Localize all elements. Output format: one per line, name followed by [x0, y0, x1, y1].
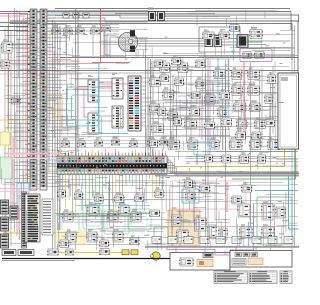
pump enclosure box 1	[170, 253, 230, 271]
wire trunk center v2	[147, 57, 149, 156]
wire X2 east 1	[222, 38, 238, 40]
wire X2 east 2	[222, 41, 238, 43]
wire trunk right v2	[207, 58, 209, 240]
green loom loop 2	[83, 205, 103, 229]
wire bundle strip-east 1	[48, 10, 149, 12]
wire rail y47 right	[230, 47, 290, 49]
tan box pump	[197, 260, 213, 267]
wire red pair ecu a	[99, 83, 130, 85]
wire trunk v6	[77, 11, 79, 152]
legend table	[214, 271, 292, 284]
wire slipring bundle east 4	[138, 45, 205, 47]
wire fan below H1	[59, 174, 163, 219]
left dark block P2	[1, 217, 9, 231]
ground bus stub	[2, 260, 75, 262]
wire top bus 1	[55, 8, 290, 10]
wire step bundle SE	[167, 158, 299, 176]
wire rail y73	[60, 72, 160, 74]
label ECU A	[88, 75, 93, 77]
component top-right D	[249, 27, 262, 39]
wire list table W2	[42, 199, 53, 235]
wire M1 east 2	[248, 44, 266, 46]
left dark block P4	[10, 206, 18, 219]
tan box pump2	[248, 258, 263, 265]
wire ecu link 4	[99, 120, 112, 122]
solenoid T3	[194, 215, 206, 231]
pink band horizontal left	[4, 153, 60, 155]
wire ticks above H1	[59, 148, 166, 156]
wire rail y24 left	[78, 24, 119, 26]
purple wire bottom 2	[224, 251, 226, 256]
wire trunk v5	[75, 9, 77, 155]
cyan link rail	[75, 205, 150, 207]
wire trunk center v3	[150, 59, 152, 156]
wire band rails above H1	[55, 137, 167, 148]
violet wire mid2	[209, 60, 211, 138]
wire rail y27 left	[70, 27, 119, 29]
wire long rail e	[165, 222, 230, 224]
wire trunk left v3	[19, 12, 21, 240]
wire trunk center v1	[145, 55, 147, 156]
wire trunk left v7	[22, 18, 24, 242]
wire X2 east 3	[222, 44, 238, 46]
pink wire lowerleft a	[0, 188, 40, 190]
violet wire mid	[178, 96, 202, 140]
tan loom region	[168, 210, 200, 246]
wire left rail 1	[0, 26, 28, 28]
relay K6	[254, 52, 264, 59]
wire yellow left drop	[8, 120, 10, 157]
pump enclosure box 2	[230, 251, 292, 268]
purple wire right top	[280, 137, 299, 139]
solenoid row	[62, 202, 141, 242]
wire top bus 2	[0, 11, 291, 13]
ground bus black	[2, 258, 170, 260]
cyan module L2	[17, 198, 29, 209]
wire top bus 4	[10, 21, 298, 75]
cyan wire mid	[217, 58, 219, 104]
solenoid T5	[218, 228, 227, 240]
wire strip left ticks	[28, 11, 30, 184]
wire ecu link 2	[99, 87, 112, 89]
wire cyan drop	[99, 64, 128, 134]
alarm horn	[150, 252, 160, 260]
wire red ecu top2	[92, 62, 101, 64]
label strip H1	[57, 150, 62, 153]
solenoid T4	[207, 225, 216, 238]
yellow connector Y2	[131, 250, 138, 255]
connector X1	[205, 36, 213, 47]
wire cyan top-right	[233, 26, 235, 60]
wire long rail d	[230, 200, 298, 202]
yellow region lower-left	[56, 230, 86, 244]
wire corner nest 3	[110, 37, 119, 57]
cyan box mid	[194, 142, 210, 155]
blue loom loop 4	[131, 212, 147, 227]
wire trunk left v6	[7, 26, 9, 130]
wire red left mid	[0, 63, 101, 65]
solenoid T2	[176, 230, 188, 243]
wire row2 drop	[105, 31, 110, 55]
cyan module L1	[17, 183, 29, 196]
connector strip J1 column A	[30, 9, 37, 190]
yellow connector Y1	[122, 250, 129, 255]
wire trunk v4	[59, 26, 61, 245]
mini table pump	[232, 259, 246, 266]
wire red feed left	[0, 14, 28, 195]
slip ring SR1	[118, 30, 137, 52]
blue loom loop 3	[107, 214, 125, 231]
wire breaker west	[115, 13, 148, 15]
twisted pair cyan loop 2	[72, 95, 99, 120]
label motor	[236, 30, 240, 32]
wire tan 1	[48, 95, 62, 97]
bottom components row left	[2, 250, 34, 256]
cyan wire right low	[248, 222, 250, 247]
cyan module center	[182, 189, 199, 203]
wire slipring bundle east 3	[138, 43, 205, 45]
components band above H1	[61, 136, 167, 147]
wire trunk center v4	[152, 61, 154, 156]
component pump p1	[203, 253, 213, 258]
wire top bus 5	[10, 24, 292, 61]
indicator cluster pale yellow	[0, 132, 10, 145]
wire trunk left v1	[14, 9, 16, 233]
wire rail y151 right green	[175, 151, 298, 153]
connector X2	[214, 36, 222, 47]
wire long rail c	[230, 92, 276, 94]
wire left rail 3	[0, 22, 28, 24]
component bottom b2	[99, 249, 109, 255]
twisted pair cyan loop 1	[67, 87, 99, 126]
component in cyan module	[185, 192, 195, 201]
wire long rail a	[150, 106, 276, 108]
wire drops row2 to bus	[55, 35, 93, 56]
valve block V2	[261, 201, 273, 220]
pink band mid vertical	[243, 62, 245, 134]
tan wire vertical	[189, 168, 191, 210]
purple wire bottom	[167, 246, 230, 255]
pin column left of list	[22, 192, 27, 248]
wire long rail b	[150, 118, 276, 120]
wire drops into pump boxes	[176, 248, 256, 253]
component S2	[0, 60, 9, 68]
green link rail	[55, 213, 160, 215]
wire bundle strip-east 2	[48, 12, 149, 14]
wire bundle strip-east 4	[48, 18, 149, 22]
relay K5	[242, 52, 251, 59]
component right r5	[275, 207, 285, 218]
wire pink ecu 2	[74, 88, 88, 90]
label smudges	[51, 32, 288, 248]
component above circle	[101, 26, 110, 32]
pink enclosure mid-right	[170, 181, 246, 209]
wire top bus 3	[55, 15, 299, 22]
wire pink feed left	[0, 16, 24, 20]
wire red pair ecu b	[99, 85, 112, 87]
relay enclosure violet	[240, 49, 272, 62]
wire trunk right v7	[294, 25, 296, 248]
label breaker	[148, 8, 154, 10]
ECU main connector C	[128, 76, 141, 131]
green rail right	[232, 135, 296, 179]
wire trunk right v6	[291, 24, 293, 251]
wire lower links	[58, 186, 286, 238]
wire left rail 2	[0, 30, 28, 32]
ECU connector B2	[112, 106, 123, 128]
enclosure box top-right	[199, 27, 240, 52]
sensor S1	[1, 39, 12, 53]
wire trunk v2	[54, 22, 56, 248]
fuse F3	[83, 13, 89, 18]
green enclosure right	[257, 197, 292, 244]
valve block V1	[237, 201, 250, 217]
wire tan 4	[48, 108, 55, 126]
wire mid gray verticals	[171, 66, 274, 152]
wire breaker east 2	[165, 16, 230, 18]
wire M1 east 1	[248, 40, 290, 42]
wire tan 3	[62, 96, 72, 129]
orange wire right	[175, 145, 285, 167]
valve block V3	[239, 224, 252, 238]
wire pink ecu vertical	[84, 89, 88, 117]
wire list table W1	[25, 194, 40, 242]
wire red branch	[8, 14, 10, 129]
pink band horizontal left 2	[4, 159, 62, 165]
purple wire right low	[230, 204, 254, 250]
left dark block P1	[1, 200, 9, 214]
wire breaker east 1	[165, 13, 215, 15]
wire fan strip east	[48, 12, 78, 187]
component top-right C	[229, 25, 239, 32]
wire bundle strip-east 3	[48, 16, 149, 19]
component pump row	[235, 253, 258, 257]
wire interconnect mesh	[1, 9, 298, 250]
wire ecu link 3	[99, 115, 112, 117]
label ECU B	[112, 73, 117, 75]
connector strip J1 column B	[40, 9, 47, 190]
wire S1 east 2	[12, 47, 30, 49]
wire S1 east 1	[12, 44, 30, 46]
blue rail right	[255, 190, 298, 192]
wire trunk right v5	[270, 140, 272, 250]
wire mid gray horizontals	[150, 67, 290, 137]
wire trunk right v4	[250, 62, 252, 227]
component row2 K3	[75, 25, 84, 34]
wire rail right extra a	[185, 158, 298, 160]
diode block D1	[47, 249, 58, 255]
indicator cluster pale green	[0, 157, 12, 179]
olive wire left	[3, 232, 60, 234]
wire trunk left v5	[4, 28, 6, 238]
wire corner nest 2	[107, 34, 119, 57]
green loom loop 4	[128, 209, 151, 230]
wire green top-right	[246, 41, 262, 43]
extra components field	[57, 55, 276, 247]
enclosure cab right	[278, 73, 299, 149]
component pump p2	[179, 258, 193, 266]
ECU connector B1	[112, 78, 123, 99]
wire main rail y70	[0, 70, 298, 72]
motor M1	[237, 35, 248, 48]
green module center	[154, 227, 168, 244]
wire slipring bundle east 1	[135, 38, 205, 40]
component inside enclosure B	[218, 29, 229, 39]
wire thick rail right pair b	[155, 175, 299, 177]
wire thick rail right pair	[150, 172, 299, 174]
wire yellow left	[0, 119, 30, 121]
component row2 K2	[63, 25, 72, 34]
wire red ecu top	[101, 9, 131, 63]
cyan trunk right	[289, 175, 299, 229]
wire top bus 2b	[290, 12, 292, 31]
component field mid	[149, 60, 280, 149]
wire trunk v3	[57, 24, 59, 252]
wire trunk left v8	[25, 20, 27, 196]
blue loom loop 1	[62, 217, 79, 231]
wire ecu c east	[141, 78, 160, 126]
wire row2 link	[48, 30, 106, 32]
solenoid T1	[171, 215, 181, 226]
wire long rail f	[55, 182, 165, 184]
yellow wire bottom	[58, 252, 130, 254]
pink wire lowerleft c	[18, 189, 20, 231]
wire pink left mid	[0, 73, 82, 75]
wire slipring bundle east 2	[135, 40, 205, 42]
fuse F2	[73, 13, 79, 18]
green loom loop 3	[104, 211, 129, 234]
pink wire lowerleft b	[0, 191, 30, 193]
blue band mid vertical	[228, 60, 230, 130]
component inside enclosure A	[202, 29, 214, 39]
bulkhead connector strip H1	[57, 156, 167, 174]
component row2 K1	[51, 25, 60, 34]
thick gray bus right	[145, 246, 299, 248]
wire trunk left v4	[10, 30, 12, 246]
wire rail right extra b	[185, 161, 298, 163]
sensor left S3	[11, 97, 20, 104]
wire tan 2	[48, 99, 58, 120]
components row above gray bus	[152, 237, 293, 244]
ECU connector A2	[88, 113, 99, 134]
wire fan strip west	[5, 15, 30, 183]
blue loom loop 2	[86, 208, 101, 226]
wire trunk left v2	[16, 10, 18, 236]
wire rail y55	[100, 55, 298, 57]
wire ecu link 1	[99, 81, 112, 83]
wire rail y18 right	[166, 18, 290, 20]
wire trunk v1	[52, 20, 54, 250]
wire trunk right v1	[205, 55, 207, 245]
green loom loop 1	[58, 214, 79, 233]
wire strip column links	[38, 13, 40, 185]
ECU connector A1	[88, 80, 99, 102]
wire long mid-top rail	[60, 57, 298, 59]
breaker block CB2	[158, 12, 165, 21]
left dark block P3	[1, 234, 9, 248]
breaker block CB1	[149, 12, 156, 21]
pink band right	[226, 182, 228, 212]
wire trunk right v3	[225, 60, 227, 244]
wire rail y50 right	[252, 50, 290, 52]
component row2 K4	[90, 25, 99, 34]
wire corner nest 1	[104, 31, 119, 57]
pink loom band left	[12, 136, 14, 212]
enclosure cab right redraw	[278, 73, 299, 149]
component center 185	[185, 181, 195, 190]
valve block V4	[261, 224, 274, 238]
wire pink ecu 1	[78, 86, 88, 88]
fuse F1	[63, 13, 69, 18]
component bottom b1	[65, 249, 73, 255]
